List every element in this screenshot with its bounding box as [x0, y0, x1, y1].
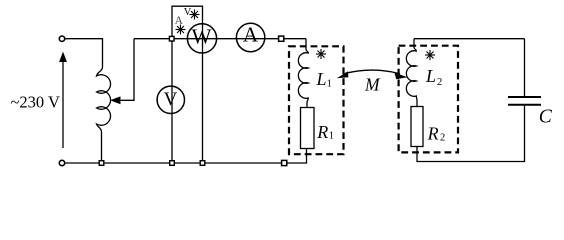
wiper arrow wire — [119, 39, 134, 101]
capacitor C plates — [508, 96, 541, 98]
svg-text:V: V — [184, 7, 192, 18]
svg-text:W: W — [192, 25, 212, 49]
dashed box 2 — [399, 46, 458, 153]
junction rail at variac — [99, 161, 104, 166]
svg-text:L: L — [316, 69, 327, 89]
wiper arrowhead — [110, 96, 121, 104]
asterisk wattmeter voltage terminal — [190, 10, 200, 20]
asterisk L1 — [316, 49, 326, 59]
svg-text:A: A — [243, 23, 259, 47]
secondary loop bottom wire — [417, 105, 525, 162]
voltage annotation arrow line — [62, 56, 64, 148]
wire from terminal into box 1 down to L1 — [305, 39, 307, 50]
voltage annotation arrowhead — [59, 52, 67, 62]
svg-text:L: L — [425, 66, 436, 86]
resistor R2 — [411, 107, 423, 147]
ammeter A circle — [236, 23, 264, 51]
dashed box 1 — [289, 46, 344, 154]
svg-text:R: R — [316, 122, 328, 142]
wattmeter W circle — [187, 24, 216, 53]
svg-text:2: 2 — [440, 132, 445, 143]
junction rail at V meter — [170, 161, 175, 166]
junction at V branch top — [169, 36, 174, 41]
terminal top-left — [59, 36, 64, 41]
wire top-left: terminal to variac top — [62, 39, 103, 67]
asterisk L2 — [425, 50, 435, 60]
autotransformer T1 coil — [97, 67, 111, 163]
junction rail at wattmeter — [200, 161, 205, 166]
svg-text:1: 1 — [327, 79, 332, 90]
terminal bottom-left — [59, 160, 64, 165]
terminal bottom right of rail — [282, 160, 287, 165]
asterisk wattmeter bottom — [176, 25, 186, 35]
bottom rail — [62, 149, 307, 164]
inductor L2 — [406, 39, 417, 107]
svg-text:2: 2 — [437, 77, 442, 88]
M arrowhead right — [394, 73, 407, 80]
svg-text:R: R — [427, 123, 439, 143]
svg-text:M: M — [364, 75, 381, 95]
wattmeter box — [172, 6, 203, 163]
resistor R1 — [301, 108, 315, 149]
M arrowhead left — [337, 71, 349, 78]
svg-text:~230 V: ~230 V — [11, 92, 61, 111]
inductor L1 — [298, 50, 308, 108]
main top wire through W and A meters — [134, 38, 306, 40]
voltmeter V circle — [157, 86, 184, 113]
secondary loop top wire — [414, 38, 525, 40]
capacitor C wire top — [524, 39, 526, 97]
mutual inductance M arc — [345, 70, 400, 74]
svg-text:C: C — [539, 107, 553, 128]
svg-text:A: A — [175, 15, 184, 27]
svg-text:1: 1 — [329, 131, 334, 142]
terminal into box1 top — [279, 36, 284, 41]
svg-text:V: V — [164, 89, 178, 110]
